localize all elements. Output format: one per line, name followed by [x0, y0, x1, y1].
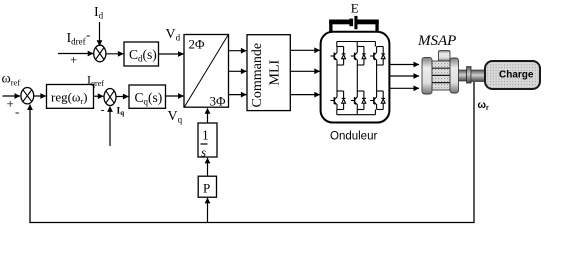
wire Vd from Cd(s) to transform block	[159, 53, 184, 55]
IGBT cell T3 with diode D3	[370, 47, 385, 66]
leg1 midpoint wire	[336, 65, 338, 91]
wire S3 to Cq(s)	[116, 96, 128, 98]
motor MSAP body with stripes	[432, 61, 450, 90]
block P pole pairs	[198, 176, 216, 197]
shaft coupling disc	[467, 67, 471, 83]
wire feedback bottom bus	[29, 222, 474, 224]
IGBT cell T5 with diode D5	[351, 91, 366, 110]
battery E	[329, 16, 379, 32]
wire S2 to reg block	[34, 95, 46, 97]
bus drop leg3 top	[374, 42, 376, 47]
summing junction S3	[104, 89, 116, 106]
wire integrator to transform block theta input	[207, 108, 209, 123]
wire Iq feedback arrow up into S3	[109, 106, 111, 146]
bus drop leg2 top	[356, 42, 358, 47]
svg-text:Onduleur: Onduleur	[330, 131, 377, 143]
svg-text:P: P	[203, 181, 210, 196]
wire MLI to inverter gate b	[290, 70, 320, 72]
svg-text:-: -	[15, 104, 19, 119]
inverter Onduleur enclosure	[321, 32, 390, 123]
wire Idref input arrow into summer S1	[58, 53, 93, 55]
svg-text:MSAP: MSAP	[417, 33, 456, 49]
svg-text:+: +	[70, 52, 77, 67]
svg-text:-: -	[101, 103, 105, 117]
wire transform to MLI phase b	[229, 70, 247, 72]
inverter dc bus bottom	[337, 114, 376, 116]
block reg(wr) speed regulator	[47, 85, 94, 109]
bus riser leg2 bottom	[356, 110, 358, 115]
leg3 midpoint wire	[376, 65, 378, 91]
wire wref input arrow into summer S2	[3, 95, 21, 97]
wire Id input arrow down into summer S1	[99, 22, 101, 46]
svg-text:Cd(s): Cd(s)	[129, 47, 157, 64]
bus riser leg3 bottom	[374, 110, 376, 115]
wire transform to MLI phase a	[229, 50, 247, 52]
block Cd(s) current regulator	[124, 42, 159, 66]
svg-text:3Φ: 3Φ	[210, 94, 227, 109]
load block charge	[485, 61, 540, 89]
summing junction S1	[94, 45, 106, 62]
block 1/s integrator	[198, 123, 217, 160]
svg-text:Cq(s): Cq(s)	[135, 90, 163, 107]
wire inverter to motor phase b	[389, 75, 419, 77]
IGBT cell T4 with diode D4	[331, 91, 346, 110]
IGBT cell T6 with diode D6	[370, 91, 385, 110]
inverter dc bus top	[337, 41, 376, 43]
svg-text:MLI: MLI	[268, 60, 283, 86]
motor MSAP left flange	[422, 57, 432, 94]
wire reg to summer S3	[94, 95, 104, 97]
svg-text:2Φ: 2Φ	[189, 37, 206, 52]
svg-text:s: s	[201, 145, 206, 160]
svg-text:Commande: Commande	[250, 43, 265, 108]
motor MSAP terminal box	[439, 51, 451, 61]
svg-text:1: 1	[202, 128, 209, 143]
wire feedback branch up to P	[207, 198, 209, 223]
wire MLI to inverter gate c	[290, 94, 320, 96]
motor MSAP right flange	[450, 58, 459, 93]
summing junction S2	[21, 88, 34, 104]
wire MLI to inverter gate a	[290, 49, 320, 51]
bus riser leg1 bottom	[336, 110, 338, 115]
wire Vq from Cq(s) to transform block	[166, 95, 184, 97]
svg-text:-: -	[86, 27, 90, 42]
block Cq(s) current regulator	[129, 85, 166, 108]
wire speed sensor drop from shaft	[473, 82, 475, 223]
wire transform to MLI phase c	[229, 94, 247, 96]
svg-text:Iq: Iq	[117, 107, 125, 118]
block 2phi/3phi transformation	[184, 35, 229, 109]
wire P to integrator	[207, 158, 209, 176]
IGBT cell T1 with diode D1	[331, 47, 346, 66]
IGBT cell T2 with diode D2	[351, 47, 366, 66]
svg-text:E: E	[351, 0, 359, 15]
wire feedback left riser to S2	[29, 105, 31, 224]
leg2 midpoint wire	[356, 65, 358, 91]
motor shaft left section	[459, 70, 467, 81]
svg-text:Charge: Charge	[499, 70, 534, 81]
wire inverter to motor phase a	[389, 64, 419, 66]
block Commande MLI	[247, 35, 290, 111]
wire S1 to Cd(s)	[106, 53, 123, 55]
svg-text:+: +	[7, 96, 14, 111]
wire inverter to motor phase c	[389, 87, 419, 89]
bus drop leg1 top	[336, 42, 338, 47]
motor shaft right section	[471, 70, 485, 82]
